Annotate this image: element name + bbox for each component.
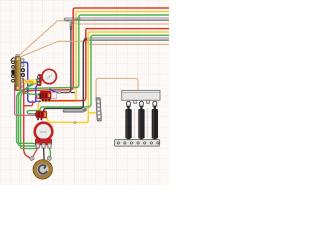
bridge saddle rings [126,101,157,106]
yellow note label [24,80,36,84]
wire blue stub to splice [50,89,58,93]
wire black short tail [71,92,75,94]
switch right lugs [21,59,24,90]
wire black 2 (crossing at corner, down to switch band) [44,39,87,111]
switch black part (left) [12,70,15,76]
bridge cylinders (3 saddles) [125,108,158,139]
pot1 body [42,69,56,83]
wire green short to component 1 left leg [23,92,38,94]
wire yellow 1 [38,12,169,112]
wire yellow from component 2 to jacket stub end [45,112,88,122]
bridge cylinder top pins [127,106,156,110]
bridge top plate [122,90,160,100]
solder dot green at component 1 [38,93,40,95]
wire pink from switch to component 2 [15,84,36,115]
wire red elbow at component 1 left [37,95,41,98]
wire green 2 [27,35,169,114]
switch body [15,56,21,90]
pot1 lug plate [36,74,42,86]
wire blue stub at component 1 bottom [36,100,39,102]
switch right terminal loops (black) [22,69,25,77]
wire green sweep a (pot1 lug to bottom bundle) [19,82,39,147]
wire black pot2 middle lug to jack [43,148,46,160]
wire jacket 1 corner crossing (gray) [71,19,81,30]
background graph paper [0,0,169,185]
wire jacket 2 end stub (bottom) [64,110,85,111]
wire yellow 2 [88,32,169,113]
wire green pot2 lug to jack [49,148,50,158]
bridge saddle posts between rings [134,100,150,103]
svg-text:To Brdg: To Brdg [25,81,34,84]
svg-text:500K: 500K [40,130,47,134]
splice joint blue-to-gray [58,91,61,94]
switch top lug [16,55,19,58]
wire green sweep b (pot1 lug to bottom bundle) [21,78,40,149]
wire red 1 [24,8,169,159]
wire red 2 [42,29,169,101]
wire blue from switch to band [21,62,38,102]
wire cable jacket 2 (gray, horizontal run) [86,37,169,41]
switch top black wire stub [11,58,14,62]
wire cable jacket 1 (gray, horizontal run) [66,17,169,21]
wire black 1 (4th conductor down to splice) [57,26,71,93]
wire bare ground 1 (tan) to switch [18,21,170,57]
pot1 lugs [37,76,40,85]
wire red stub from switch lug down [22,79,23,95]
switch left terminal loops (black) [12,61,15,82]
wire bare ground 2 (tan) to switch [19,41,169,57]
splice joint on yellow loop [74,122,76,124]
wire red pot2 lug to jack [32,148,38,159]
bridge bottom bar [115,140,160,147]
wire green 1 [17,15,169,145]
bridge cylinder bottom pins [127,138,156,142]
wire red branch to component area [24,101,33,106]
